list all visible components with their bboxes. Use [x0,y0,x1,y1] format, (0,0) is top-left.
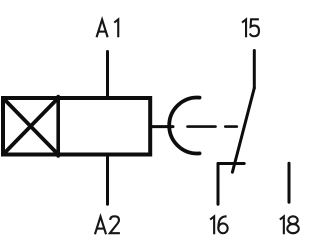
coil X diagonal 2 [3,98,58,155]
delay symbol half-circle [169,97,199,153]
terminal label A1 [97,19,119,37]
coil X diagonal 1 [3,98,58,155]
terminal label 15 [242,19,259,37]
wire A2 [106,155,109,205]
wire A1 [106,52,109,99]
terminal label 18 [280,216,299,234]
terminal 18 wire [288,163,291,202]
contact blade [232,88,254,172]
terminal label A2 [95,216,120,234]
terminal 15 wire [253,51,256,89]
coil K1 body [3,98,150,155]
mechanical link dash B [225,125,237,128]
NC contact 16 wire [217,164,220,205]
mechanical link dash A [188,125,216,128]
terminal label 16 [210,216,228,234]
NC contact seat 16 horizontal [218,162,244,165]
wire coil to delay symbol [150,125,173,128]
coil divider [56,97,60,157]
